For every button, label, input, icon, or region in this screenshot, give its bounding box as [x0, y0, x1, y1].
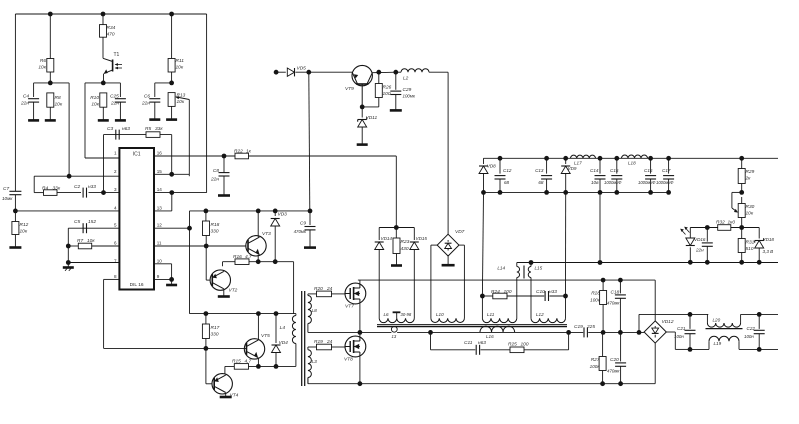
node bottom C15 — [614, 190, 619, 195]
svg-text:R6: R6 — [40, 58, 46, 64]
svg-text:22н: 22н — [695, 248, 704, 253]
svg-text:14: 14 — [157, 187, 163, 192]
label VT7 — [345, 304, 354, 310]
resistor R5 — [146, 132, 160, 138]
node c-rail C18 — [618, 330, 623, 335]
wire drive to L4 bottom — [295, 344, 297, 367]
wire pin7 net — [68, 262, 119, 264]
IC U1 body — [119, 148, 154, 290]
ground C4 — [28, 119, 39, 122]
node snubber / VD8 column — [480, 294, 485, 299]
node pin2 / R8-block — [67, 174, 72, 179]
wire drive riser — [189, 211, 191, 314]
label C13 — [535, 168, 544, 185]
wire C6-R13 link — [155, 82, 172, 84]
svg-text:VD12: VD12 — [662, 319, 674, 325]
label VD9 — [568, 166, 577, 171]
label VD15 — [416, 236, 428, 241]
svg-text:C17: C17 — [662, 168, 671, 173]
svg-text:4,7: 4,7 — [245, 359, 252, 365]
node bottom C17 — [666, 190, 671, 195]
capacitor C12 — [495, 158, 506, 192]
svg-text:DIL 16: DIL 16 — [130, 282, 144, 288]
label VT4 — [230, 393, 239, 399]
svg-text:C20: C20 — [610, 357, 619, 363]
node lower rail VD8 — [481, 190, 486, 195]
svg-text:330: 330 — [211, 229, 219, 235]
svg-text:C11: C11 — [464, 340, 473, 346]
potentiometer R13 — [168, 93, 189, 177]
inductor L18 — [622, 155, 648, 158]
svg-text:C14: C14 — [590, 168, 599, 173]
svg-text:T1: T1 — [114, 52, 120, 58]
node T1 emitter / R10 — [101, 81, 106, 86]
wire C3 left drop — [103, 135, 105, 193]
capacitor C21 — [685, 314, 696, 349]
capacitor C19 — [583, 327, 588, 337]
svg-text:13: 13 — [157, 205, 163, 210]
svg-text:R5: R5 — [145, 126, 151, 132]
resistor R11 — [168, 14, 175, 83]
svg-text:н33: н33 — [88, 184, 96, 190]
resistor R15 — [234, 364, 248, 370]
svg-text:C18: C18 — [611, 290, 620, 296]
svg-text:22н: 22н — [110, 101, 119, 107]
label VT8 — [344, 357, 353, 363]
label L19 — [714, 341, 722, 346]
wire lower drive rail — [190, 313, 296, 315]
ground VT4 — [220, 396, 232, 399]
node lower rail / VT5 collector — [256, 311, 261, 316]
label C2 — [74, 184, 96, 190]
diode VD15 — [410, 228, 419, 319]
svg-text:L19: L19 — [714, 341, 722, 346]
label VD12 — [662, 319, 674, 325]
label C25 — [110, 94, 119, 107]
wire top supply rail — [15, 13, 206, 15]
svg-text:R34: R34 — [107, 25, 116, 31]
label C14 — [590, 168, 599, 185]
svg-text:R29: R29 — [746, 169, 755, 175]
inductor L2 — [396, 69, 448, 73]
svg-text:VD8: VD8 — [487, 164, 496, 169]
label VT5 — [261, 333, 270, 339]
label R27 — [590, 357, 601, 369]
pin 7 number — [114, 258, 117, 263]
svg-text:100мк: 100мк — [403, 94, 416, 99]
svg-text:470мк: 470мк — [607, 369, 620, 374]
label C18 — [607, 290, 620, 306]
capacitor C11 — [476, 345, 479, 355]
label R23 — [401, 239, 410, 252]
svg-text:R18: R18 — [211, 222, 220, 228]
label VD18 — [763, 237, 775, 254]
diode VD5 — [287, 68, 294, 76]
node collector / C29 — [393, 70, 398, 75]
label L8 — [312, 308, 318, 314]
resistor R16 — [235, 259, 249, 265]
diode VD9 — [561, 158, 570, 296]
svg-text:L16: L16 — [486, 334, 494, 339]
svg-text:VD11: VD11 — [366, 115, 378, 121]
transistor VT4 pnp — [212, 374, 232, 394]
wire pin9 net — [154, 278, 172, 280]
label R34 — [107, 25, 116, 38]
transistor T1 optocoupler — [103, 58, 122, 83]
resistor R24 — [493, 293, 507, 299]
node upper rail / VD3 — [273, 209, 278, 214]
winding L10 — [431, 318, 465, 322]
label C4 — [20, 94, 29, 107]
svg-text:C19: C19 — [574, 324, 583, 330]
svg-text:VD3: VD3 — [278, 212, 288, 218]
label R20 — [314, 286, 333, 292]
svg-text:R16: R16 — [233, 254, 242, 260]
svg-text:L12: L12 — [536, 312, 544, 317]
svg-text:L2: L2 — [403, 76, 409, 82]
svg-text:R8: R8 — [55, 95, 61, 101]
node top rail / R34 — [101, 12, 106, 17]
svg-text:22н: 22н — [141, 101, 150, 107]
label C16 — [638, 168, 656, 185]
wire LED branch rail — [690, 227, 759, 229]
label VD3 — [278, 212, 288, 218]
label L20 — [713, 318, 721, 323]
wire VD5 line — [276, 71, 286, 73]
wire pin15 net — [154, 173, 189, 175]
svg-text:C22: C22 — [747, 326, 756, 331]
label C8 — [210, 168, 219, 183]
node lower rail VD9 — [563, 190, 568, 195]
resistor R12 — [12, 211, 19, 248]
svg-text:9: 9 — [157, 274, 160, 279]
label L3 — [312, 359, 318, 365]
svg-text:10мк: 10мк — [2, 196, 13, 201]
ground VT2 — [218, 295, 230, 298]
label R30 — [746, 204, 755, 217]
capacitor C6 — [149, 83, 160, 120]
svg-text:C9: C9 — [300, 221, 306, 227]
capacitor C5 — [83, 223, 86, 233]
node top rail / R11 — [169, 12, 174, 17]
label VD11 — [366, 115, 378, 121]
node bottom rail / VD18 — [757, 260, 762, 265]
node collector / R26 — [376, 70, 381, 75]
node VT4 rail / VD4 — [274, 364, 279, 369]
svg-text:470: 470 — [107, 32, 115, 38]
node top C15 — [614, 156, 619, 161]
label R5 — [145, 126, 163, 132]
svg-text:68: 68 — [538, 180, 544, 185]
label R31 — [746, 240, 755, 253]
label C11 — [464, 340, 486, 346]
wire pin2 corner to R4 — [33, 176, 35, 192]
label C19 — [574, 324, 595, 330]
wire mid rail c — [308, 331, 644, 333]
svg-text:R20: R20 — [314, 286, 323, 292]
svg-text:4: 4 — [114, 205, 117, 210]
pin 13 number — [157, 205, 163, 210]
resistor R32 — [718, 225, 731, 231]
svg-text:C7: C7 — [3, 186, 9, 192]
node lower rail / R17 — [204, 311, 209, 316]
node top C17 — [666, 156, 671, 161]
ground R8 — [45, 119, 56, 122]
node bottom rail / C24 — [705, 260, 710, 265]
label C12 — [503, 168, 512, 185]
wire pin8 stub — [104, 278, 120, 280]
wire C14 column to feedback rail — [599, 192, 601, 262]
label C6 — [141, 94, 150, 107]
wire base link to VT5 — [206, 347, 247, 349]
node b-rail R28 — [601, 278, 606, 283]
wire R8 block to pin2 — [68, 83, 70, 176]
svg-text:10: 10 — [157, 258, 163, 263]
node VT8 source rail — [358, 381, 363, 386]
pin 14 number — [157, 187, 163, 192]
svg-text:R17: R17 — [211, 325, 220, 331]
svg-text:VD15: VD15 — [416, 236, 428, 241]
svg-text:R32: R32 — [716, 220, 725, 226]
pin 6 number — [114, 241, 117, 246]
wire VD7 right to L10 — [459, 245, 464, 318]
svg-text:100: 100 — [383, 91, 391, 97]
svg-text:C10: C10 — [536, 289, 545, 295]
node VT9 base / VD11 — [360, 105, 365, 110]
ground R10 — [98, 119, 109, 122]
wire VD14-VD15 rail — [379, 227, 414, 229]
svg-text:R24: R24 — [491, 289, 500, 295]
wire VT4 collector riser — [224, 366, 226, 374]
svg-text:VD4: VD4 — [279, 340, 289, 346]
potentiometer R30 — [732, 192, 745, 227]
wire VT3 emitter — [257, 255, 259, 262]
svg-text:VD5: VD5 — [297, 66, 307, 72]
capacitor C8 — [219, 156, 230, 195]
capacitor C4 — [28, 83, 39, 121]
resistor R8 — [47, 93, 54, 121]
wire VD12 bottom to d-rail — [654, 343, 656, 384]
wire pin11 net — [154, 245, 246, 247]
svg-text:24: 24 — [326, 286, 333, 292]
wire VD5 to VT9 — [296, 71, 353, 73]
label VD5 — [297, 66, 307, 72]
svg-text:330: 330 — [211, 332, 219, 338]
rectifier VD7 — [437, 234, 459, 256]
svg-text:10к: 10к — [55, 102, 63, 108]
node pin4 / C7 / R12 — [13, 209, 18, 214]
svg-text:C16: C16 — [644, 168, 653, 173]
wire output plus tap — [639, 314, 690, 332]
ground R23 — [391, 264, 402, 267]
svg-text:C13: C13 — [535, 168, 544, 173]
capacitor C29 — [390, 72, 401, 110]
resistor R18 — [203, 211, 210, 246]
ground VD11 — [357, 143, 368, 146]
svg-text:R22: R22 — [234, 149, 243, 155]
wire drive upper rail — [190, 210, 311, 212]
svg-text:C15: C15 — [610, 168, 619, 173]
wire C11-R25 branch — [431, 332, 569, 349]
label L4 — [280, 325, 286, 331]
wire L2 to VD7 bridge — [447, 72, 449, 234]
node branch left — [428, 330, 433, 335]
ground pins 9-10 — [166, 279, 177, 285]
label R16 — [233, 254, 252, 260]
svg-text:2к: 2к — [745, 176, 752, 182]
label VD8 — [487, 164, 496, 169]
node top C16 — [648, 156, 653, 161]
label R22 — [234, 149, 252, 155]
svg-text:10к: 10к — [87, 238, 95, 244]
wire C3-R5 feedback — [104, 134, 172, 136]
inductor L17 — [571, 155, 596, 158]
wire VT9 collector out — [372, 71, 396, 74]
svg-text:L3: L3 — [312, 359, 318, 365]
label VD7 — [455, 229, 465, 235]
svg-text:н63: н63 — [122, 126, 130, 132]
svg-text:L15: L15 — [535, 266, 543, 271]
capacitor C20 — [615, 332, 626, 383]
wire VT3 emitter rail — [223, 261, 294, 263]
ground R12 — [9, 246, 21, 249]
svg-text:16: 16 — [157, 151, 163, 156]
svg-text:C3: C3 — [107, 126, 113, 132]
node top C14 — [598, 156, 603, 161]
winding L3 — [308, 347, 311, 384]
label R29 — [745, 169, 755, 182]
resistor R26 — [362, 72, 382, 107]
svg-text:11: 11 — [157, 241, 162, 246]
label L10 — [436, 312, 444, 317]
svg-text:3: 3 — [114, 187, 117, 192]
svg-text:L10: L10 — [436, 312, 444, 317]
node emitter rail / VT3 — [256, 259, 261, 264]
svg-text:470мк: 470мк — [607, 301, 620, 306]
resistor R25 — [510, 347, 524, 353]
svg-text:1к: 1к — [246, 149, 252, 155]
wire pin8 down-left — [104, 279, 206, 348]
node emitter rail / VD3 — [273, 259, 278, 264]
node upper rail / R18 — [204, 209, 209, 214]
wire output lower rail — [484, 191, 669, 193]
node pin14 / pin13 riser — [169, 190, 174, 195]
svg-text:10к: 10к — [91, 102, 99, 108]
node R6/C4/R8 — [48, 81, 53, 86]
svg-text:R12: R12 — [20, 222, 29, 228]
winding L16 — [480, 326, 515, 332]
node pin9/pin10 ground — [169, 277, 174, 282]
pin 9 number — [157, 274, 160, 279]
capacitor C16 — [645, 158, 656, 192]
capacitor C15 — [611, 158, 622, 192]
wire VD12 right to minus rail — [666, 332, 690, 349]
svg-text:24: 24 — [326, 339, 333, 345]
label R24 — [491, 289, 512, 295]
label L15 — [535, 266, 543, 271]
svg-text:VD18: VD18 — [763, 237, 775, 242]
node bottom rail / C14 column — [598, 260, 603, 265]
svg-text:R11: R11 — [176, 58, 185, 64]
node snubber / VD9 column — [563, 294, 568, 299]
svg-text:100н: 100н — [744, 334, 754, 339]
label VD4 — [279, 340, 289, 346]
svg-text:10к: 10к — [176, 65, 184, 71]
node b-rail C18 — [618, 278, 623, 283]
label C21 — [674, 326, 686, 339]
wire b-rail corner to VD12 — [654, 280, 656, 321]
svg-text:5: 5 — [114, 223, 117, 228]
label R10 — [90, 95, 100, 108]
label R4 — [42, 186, 61, 192]
label VD14 — [381, 236, 393, 241]
node plus rail C21 — [688, 312, 693, 317]
node L15 top — [529, 260, 534, 265]
winding L4 — [292, 314, 295, 344]
resistor R7 — [78, 243, 91, 249]
wire pin16 corner down — [395, 156, 397, 228]
zener VD11 — [358, 107, 367, 144]
svg-text:10в: 10в — [591, 180, 599, 185]
capacitor C10 — [545, 291, 548, 301]
transistor VT5 — [244, 339, 264, 359]
svg-text:C6: C6 — [144, 94, 150, 100]
node bottom C16 — [648, 190, 653, 195]
svg-text:L14: L14 — [497, 266, 505, 271]
capacitor C18 — [615, 280, 626, 332]
node top rail R29 — [739, 156, 744, 161]
svg-text:510: 510 — [746, 246, 754, 252]
node plus rail C22 — [757, 312, 762, 317]
svg-text:100к: 100к — [590, 364, 601, 369]
svg-text:L4: L4 — [280, 325, 286, 331]
svg-text:3,3 В: 3,3 В — [763, 249, 774, 254]
led VD16 — [680, 227, 695, 263]
node VD5 anode terminal — [274, 70, 279, 75]
wire VT7 source — [359, 303, 361, 333]
wire pin6 net — [68, 245, 119, 247]
ground R13 — [166, 118, 177, 121]
rectifier VD12 — [644, 321, 666, 343]
label L6 — [384, 312, 390, 317]
node R17 / pin8 / bases — [204, 346, 209, 351]
wire C5-R7 drop — [67, 228, 69, 262]
svg-text:L11: L11 — [487, 312, 495, 317]
svg-text:VT9: VT9 — [345, 86, 354, 92]
svg-text:C5: C5 — [74, 219, 80, 225]
wire snubber rail — [482, 295, 565, 297]
resistor R6 — [47, 14, 54, 83]
svg-text:R25: R25 — [508, 342, 517, 348]
wire pin13 net — [154, 193, 172, 211]
svg-text:10к: 10к — [38, 65, 46, 71]
svg-text:L18: L18 — [628, 160, 636, 165]
node rail / C24 — [705, 225, 710, 230]
capacitor C13 — [541, 158, 552, 192]
node bottom C12 — [498, 190, 503, 195]
resistor R27 — [599, 332, 606, 383]
pin 10 number — [157, 258, 163, 263]
node c-rail R28 — [601, 330, 606, 335]
node minus rail C22 — [757, 347, 762, 352]
ground C29 — [390, 109, 402, 112]
resistor R10 — [100, 93, 107, 121]
svg-text:R15: R15 — [232, 359, 241, 365]
wire base link to VT4 — [206, 348, 212, 383]
wire pin1 riser — [85, 83, 119, 158]
label R28 — [590, 291, 601, 303]
capacitor C24 — [702, 228, 713, 263]
